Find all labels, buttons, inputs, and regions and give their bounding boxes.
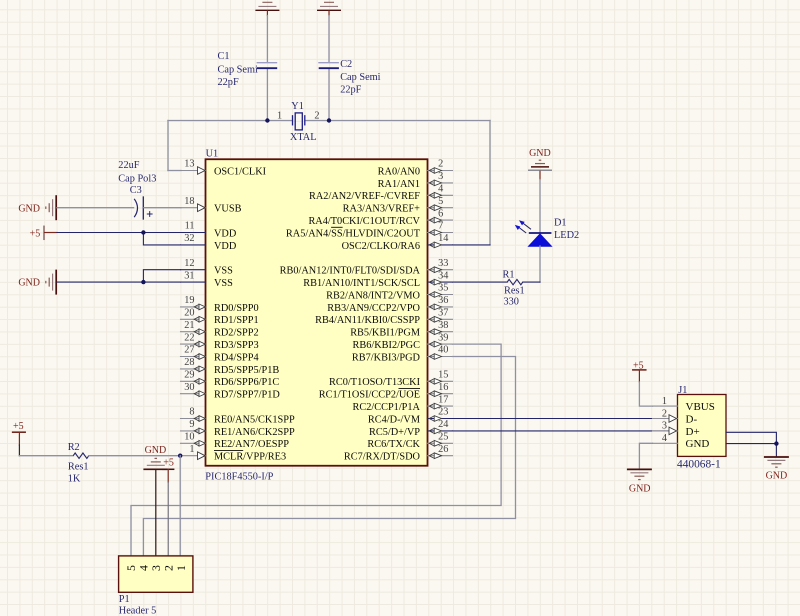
pin 37 RB4/AN11/KBI0/CSSPP — [315, 308, 452, 327]
ground above D1 — [528, 148, 552, 180]
connector P1 Header 5 body — [119, 556, 193, 592]
svg-text:37: 37 — [438, 308, 448, 319]
svg-text:1: 1 — [189, 444, 194, 455]
pin 12 VSS — [181, 258, 234, 277]
svg-text:GND: GND — [145, 445, 167, 456]
svg-text:23: 23 — [438, 407, 448, 418]
svg-text:16: 16 — [438, 382, 448, 393]
wire RC4 (pin 23) to J1 D- — [453, 418, 669, 420]
svg-text:C3: C3 — [130, 185, 142, 196]
svg-text:RD6/SPP6/P1C: RD6/SPP6/P1C — [214, 377, 279, 388]
svg-text:RA4/T0CKI/C1OUT/RCV: RA4/T0CKI/C1OUT/RCV — [308, 216, 420, 227]
svg-text:8: 8 — [189, 407, 194, 418]
svg-text:22uF: 22uF — [118, 160, 139, 171]
wire J1 GND pin to ground — [639, 443, 652, 469]
svg-text:13: 13 — [184, 159, 194, 170]
svg-text:RD3/SPP3: RD3/SPP3 — [214, 340, 259, 351]
svg-text:VSS: VSS — [214, 266, 233, 277]
wire GND to D1 cathode — [539, 180, 541, 233]
svg-text:30: 30 — [184, 382, 194, 393]
wire +5 to header pin 2 — [167, 482, 169, 556]
svg-text:25: 25 — [438, 432, 448, 443]
svg-text:RC1/T1OSI/CCP2/UOE: RC1/T1OSI/CCP2/UOE — [319, 390, 420, 401]
svg-text:D-: D- — [686, 413, 698, 425]
svg-text:C1: C1 — [218, 51, 230, 62]
wire OSC2 drop to pin 14 — [453, 121, 491, 245]
pin 30 RD7/SPP7/P1D — [181, 382, 281, 401]
pin 5 RA3/AN3/VREF+ — [343, 196, 453, 215]
svg-text:RB2/AN8/INT2/VMO: RB2/AN8/INT2/VMO — [326, 290, 420, 301]
svg-text:31: 31 — [184, 270, 194, 281]
ground below J1 (left) — [627, 469, 652, 494]
svg-text:PIC18F4550-I/P: PIC18F4550-I/P — [205, 471, 273, 482]
capacitor C1 — [218, 51, 278, 88]
svg-text:7: 7 — [438, 221, 443, 232]
ground above C2 — [317, 2, 341, 15]
pin 6 RA4/T0CKI/C1OUT/RCV — [308, 208, 452, 227]
resistor R1 — [453, 270, 541, 308]
node MCLR junction — [178, 454, 182, 458]
connector J1 body (440068-1 USB) — [678, 395, 727, 457]
pin 2 RA0/AN0 — [378, 159, 453, 178]
svg-text:Header 5: Header 5 — [119, 606, 156, 616]
power port +5 (VDD) — [30, 226, 57, 239]
pin 26 RC7/RX/DT/SDO — [344, 444, 453, 463]
svg-text:36: 36 — [438, 295, 448, 306]
wire J1 shell to ground (right) — [726, 432, 776, 457]
ground port GND (VSS) — [18, 270, 56, 295]
svg-text:440068-1: 440068-1 — [677, 459, 721, 471]
svg-text:D+: D+ — [686, 426, 700, 438]
node J1 shell junction — [774, 441, 778, 445]
svg-text:2: 2 — [662, 408, 667, 419]
pin 23 RC4/D-/VM — [368, 407, 453, 426]
svg-text:MCLR/VPP/RE3: MCLR/VPP/RE3 — [214, 452, 286, 463]
pin 1 MCLR overline — [214, 450, 243, 452]
svg-text:RC6/TX/CK: RC6/TX/CK — [367, 439, 420, 450]
ground port GND (header pin 3) — [143, 445, 167, 470]
svg-text:+5: +5 — [163, 458, 174, 469]
pin 38 RB5/KBI1/PGM — [350, 320, 452, 339]
svg-text:1K: 1K — [68, 474, 81, 485]
resistor R2 — [19, 442, 180, 485]
svg-text:GND: GND — [18, 278, 40, 289]
svg-text:2: 2 — [438, 159, 443, 170]
svg-text:28: 28 — [184, 357, 194, 368]
svg-text:RE1/AN6/CK2SPP: RE1/AN6/CK2SPP — [214, 427, 295, 438]
pin 21 RD2/SPP2 — [181, 320, 259, 339]
pin 20 RD1/SPP1 — [181, 308, 259, 327]
pin 1 MCLR/VPP/RE3 — [181, 444, 287, 463]
pin 40 RB7/KBI3/PGD — [352, 345, 453, 364]
pin 4 RA2/AN2/VREF-/CVREF — [309, 184, 453, 203]
node VDD junction — [141, 230, 145, 234]
wire GND to header pin 3 — [155, 469, 157, 556]
svg-text:22: 22 — [184, 332, 194, 343]
capacitor C3 (Cap Pol3 22uF) — [118, 160, 156, 219]
ground right of J1 — [764, 457, 789, 481]
pin 32 VDD — [181, 233, 237, 252]
svg-text:GND: GND — [18, 203, 40, 214]
svg-text:RC5/D+/VP: RC5/D+/VP — [369, 427, 420, 438]
svg-text:15: 15 — [438, 370, 448, 381]
svg-text:Cap Semi: Cap Semi — [340, 72, 380, 83]
svg-text:VSS: VSS — [214, 278, 233, 289]
svg-text:GND: GND — [766, 470, 788, 481]
pin 19 RD0/SPP0 — [181, 295, 259, 314]
svg-text:RB5/KBI1/PGM: RB5/KBI1/PGM — [350, 328, 420, 339]
ground above C1 — [255, 2, 279, 15]
svg-text:RB4/AN11/KBI0/CSSPP: RB4/AN11/KBI0/CSSPP — [315, 315, 420, 326]
wire GND to C3 — [57, 207, 134, 209]
svg-text:R2: R2 — [68, 442, 80, 453]
wire C3 to pin 18 VUSB — [144, 207, 181, 209]
svg-text:GND: GND — [629, 484, 651, 495]
pin 10 RE2/AN7/OESPP — [181, 432, 290, 451]
svg-text:J1: J1 — [678, 385, 687, 396]
svg-text:RC4/D-/VM: RC4/D-/VM — [368, 414, 420, 425]
pin 8 RE0/AN5/CK1SPP — [181, 407, 295, 426]
svg-text:GND: GND — [529, 148, 551, 159]
svg-text:RE2/AN7/OESPP: RE2/AN7/OESPP — [214, 439, 289, 450]
svg-text:+5: +5 — [30, 229, 41, 240]
svg-text:RE0/AN5/CK1SPP: RE0/AN5/CK1SPP — [214, 414, 295, 425]
pin 22 RD3/SPP3 — [181, 332, 259, 351]
power port +5 (MCLR pullup) — [13, 421, 26, 456]
pin 33 RB0/AN12/INT0/FLT0/SDI/SDA — [280, 258, 453, 277]
op-amp U1 body (IC PIC18F4550) — [206, 159, 428, 466]
pin 14 OSC2/CLKO/RA6 — [342, 233, 453, 252]
svg-text:VBUS: VBUS — [686, 401, 715, 413]
svg-text:29: 29 — [184, 370, 194, 381]
wire RC5 (pin 24) to J1 D+ — [453, 430, 669, 432]
svg-text:9: 9 — [189, 419, 194, 430]
svg-text:RB7/KBI3/PGD: RB7/KBI3/PGD — [352, 352, 421, 363]
connector J1 pins 1-4 VBUS D- D+ GND — [653, 396, 715, 450]
header P1 pin numbers 5 4 3 2 1 — [124, 565, 188, 571]
pin 31 VSS — [181, 270, 234, 289]
svg-text:R1: R1 — [503, 270, 515, 281]
svg-text:1: 1 — [662, 396, 667, 407]
pin 17 RC2/CCP1/P1A — [352, 394, 452, 413]
wire RB7 (pin 40) to header pin 4 — [143, 357, 515, 556]
svg-text:RC0/T1OSO/T13CKI: RC0/T1OSO/T13CKI — [329, 377, 421, 388]
svg-text:VDD: VDD — [214, 241, 237, 252]
power port +5 (header pin 2) — [162, 458, 174, 482]
svg-text:3: 3 — [438, 171, 443, 182]
pin 7 RA5/AN4/SS/HLVDIN/C2OUT — [286, 221, 453, 240]
svg-text:1: 1 — [277, 111, 282, 122]
svg-text:Cap Pol3: Cap Pol3 — [118, 174, 156, 185]
svg-text:35: 35 — [438, 283, 448, 294]
pin 35 RB2/AN8/INT2/VMO — [326, 283, 452, 302]
pin 28 RD5/SPP5/P1B — [181, 357, 280, 376]
svg-text:6: 6 — [438, 208, 443, 219]
svg-text:40: 40 — [438, 345, 448, 356]
pin 3 RA1/AN1 — [378, 171, 453, 190]
ground port GND (to C3) — [18, 195, 56, 220]
svg-text:RA0/AN0: RA0/AN0 — [378, 166, 420, 177]
pin 29 RD6/SPP6/P1C — [181, 370, 280, 389]
svg-text:VDD: VDD — [214, 228, 237, 239]
svg-text:Y1: Y1 — [291, 101, 304, 112]
svg-text:10: 10 — [184, 432, 194, 443]
pin 16 RC1/T1OSI/CCP2/UOE — [319, 382, 453, 401]
wire GND to VSS pins — [57, 270, 181, 282]
wire crystal net horizontal — [168, 120, 490, 122]
pin 15 RC0/T1OSO/T13CKI — [329, 370, 452, 389]
svg-text:RD7/SPP7/P1D: RD7/SPP7/P1D — [214, 390, 280, 401]
pin 25 RC6/TX/CK — [367, 432, 452, 451]
svg-text:RD2/SPP2: RD2/SPP2 — [214, 328, 259, 339]
pin 39 RB6/KBI2/PGC — [352, 332, 452, 351]
svg-text:RB1/AN10/INT1/SCK/SCL: RB1/AN10/INT1/SCK/SCL — [303, 278, 420, 289]
wire MCLR to header pin 1 — [179, 456, 181, 556]
svg-text:11: 11 — [185, 221, 195, 232]
svg-text:RA5/AN4/SS/HLVDIN/C2OUT: RA5/AN4/SS/HLVDIN/C2OUT — [286, 228, 421, 239]
svg-text:18: 18 — [184, 196, 194, 207]
pin 18 VUSB — [181, 196, 242, 215]
svg-text:D1: D1 — [554, 218, 567, 229]
crystal Y1 — [277, 101, 320, 143]
svg-text:GND: GND — [686, 438, 710, 450]
svg-text:RB3/AN9/CCP2/VPO: RB3/AN9/CCP2/VPO — [327, 303, 420, 314]
svg-text:Cap Semi: Cap Semi — [218, 65, 258, 76]
pin 27 RD4/SPP4 — [181, 345, 259, 364]
svg-text:4: 4 — [662, 433, 667, 444]
wire C2 to crystal net — [328, 16, 330, 121]
svg-text:P1: P1 — [119, 594, 130, 605]
svg-text:U1: U1 — [206, 148, 219, 159]
node VSS junction — [141, 280, 145, 284]
node crystal-C2 junction — [327, 118, 331, 122]
svg-text:20: 20 — [184, 308, 194, 319]
pin 11 VDD — [181, 221, 237, 240]
svg-text:27: 27 — [184, 345, 194, 356]
wire +5 to J1 VBUS — [639, 382, 652, 406]
svg-text:XTAL: XTAL — [290, 132, 317, 143]
svg-text:2: 2 — [314, 111, 319, 122]
svg-text:22pF: 22pF — [340, 84, 361, 95]
svg-text:LED2: LED2 — [554, 230, 579, 241]
wire RB6 (pin 39) to header pin 5 — [131, 344, 501, 556]
svg-text:26: 26 — [438, 444, 448, 455]
node crystal-C1 junction — [265, 118, 269, 122]
svg-text:17: 17 — [438, 394, 448, 405]
svg-text:VUSB: VUSB — [214, 204, 242, 215]
svg-text:RB0/AN12/INT0/FLT0/SDI/SDA: RB0/AN12/INT0/FLT0/SDI/SDA — [280, 266, 421, 277]
svg-text:22pF: 22pF — [218, 77, 239, 88]
svg-text:32: 32 — [184, 233, 194, 244]
pin 16 UOE overline — [399, 387, 421, 389]
pin 7 SS overline — [331, 226, 343, 228]
svg-text:RD1/SPP1: RD1/SPP1 — [214, 315, 259, 326]
pin 36 RB3/AN9/CCP2/VPO — [327, 295, 452, 314]
wire +5 to VDD pins — [57, 233, 181, 245]
wire D1 anode to R1 — [539, 246, 541, 282]
pin 9 RE1/AN6/CK2SPP — [181, 419, 295, 438]
power port +5 (VBUS) — [633, 360, 646, 382]
svg-text:39: 39 — [438, 332, 448, 343]
wire OSC1 drop to pin 13 — [168, 121, 181, 171]
svg-text:5: 5 — [438, 196, 443, 207]
svg-text:RD0/SPP0: RD0/SPP0 — [214, 303, 259, 314]
svg-text:Res1: Res1 — [504, 285, 525, 296]
svg-text:330: 330 — [504, 297, 519, 308]
LED D1 — [515, 218, 579, 247]
capacitor C2 — [318, 59, 380, 95]
svg-text:RC7/RX/DT/SDO: RC7/RX/DT/SDO — [344, 452, 421, 463]
svg-text:C2: C2 — [340, 59, 352, 70]
svg-text:OSC2/CLKO/RA6: OSC2/CLKO/RA6 — [342, 241, 420, 252]
svg-text:RA1/AN1: RA1/AN1 — [378, 179, 420, 190]
svg-text:Res1: Res1 — [68, 462, 89, 473]
pin 13 OSC1/CLKI — [181, 159, 267, 178]
svg-text:12: 12 — [184, 258, 194, 269]
svg-text:RD4/SPP4: RD4/SPP4 — [214, 352, 259, 363]
pin 34 RB1/AN10/INT1/SCK/SCL — [303, 270, 452, 289]
svg-text:+5: +5 — [13, 421, 24, 432]
svg-text:34: 34 — [438, 270, 448, 281]
svg-text:3: 3 — [662, 421, 667, 432]
wire C1 to crystal net — [266, 16, 268, 121]
svg-text:19: 19 — [184, 295, 194, 306]
svg-text:RA2/AN2/VREF-/CVREF: RA2/AN2/VREF-/CVREF — [309, 191, 420, 202]
svg-text:RC2/CCP1/P1A: RC2/CCP1/P1A — [352, 402, 420, 413]
svg-text:4: 4 — [438, 184, 443, 195]
svg-text:RA3/AN3/VREF+: RA3/AN3/VREF+ — [343, 204, 421, 215]
pin 24 RC5/D+/VP — [369, 419, 453, 438]
svg-text:RB6/KBI2/PGC: RB6/KBI2/PGC — [352, 340, 420, 351]
svg-text:RD5/SPP5/P1B: RD5/SPP5/P1B — [214, 365, 279, 376]
svg-text:OSC1/CLKI: OSC1/CLKI — [214, 166, 267, 177]
svg-text:24: 24 — [438, 419, 448, 430]
svg-text:1: 1 — [174, 565, 188, 571]
svg-text:14: 14 — [438, 233, 448, 244]
svg-text:21: 21 — [184, 320, 194, 331]
svg-text:33: 33 — [438, 258, 448, 269]
svg-text:38: 38 — [438, 320, 448, 331]
